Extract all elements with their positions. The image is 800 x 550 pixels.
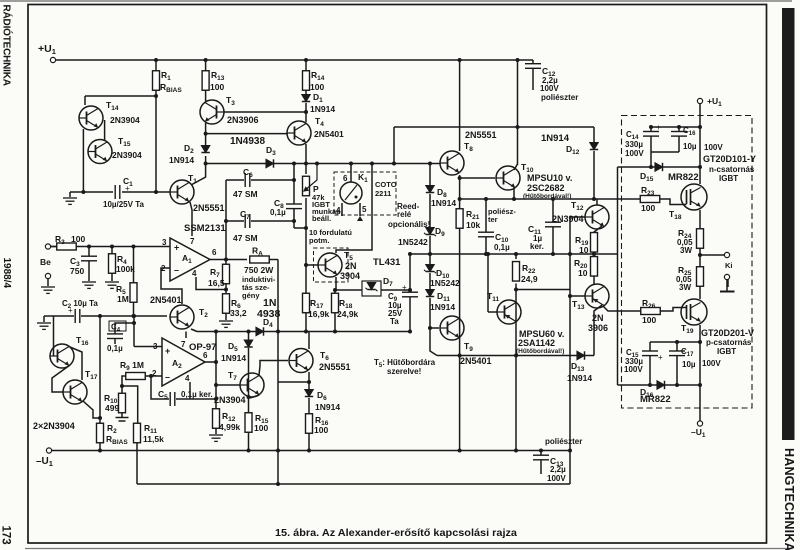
svg-text:–: – [165, 372, 170, 382]
wire R3 input terminal stub [51, 246, 57, 248]
svg-text:+: + [656, 123, 661, 132]
capacitor C5 [170, 392, 175, 406]
svg-text:R1: R1 [161, 70, 171, 82]
wire T11 base vertical [487, 254, 489, 312]
svg-text:K1: K1 [358, 172, 368, 184]
wire R2 bottom stub [99, 443, 101, 451]
svg-text:szerelve!: szerelve! [387, 367, 421, 376]
capacitor C17 [669, 351, 685, 356]
T5 heatsink dashed box [314, 248, 349, 282]
wire K1 pin4 stub [341, 203, 343, 216]
svg-text:3: 3 [153, 342, 158, 351]
capacitor C7 [245, 214, 250, 228]
svg-text:3: 3 [162, 238, 167, 247]
svg-text:10µ: 10µ [683, 142, 697, 151]
capacitor C4 [109, 321, 126, 331]
svg-text:opcionális!: opcionális! [388, 220, 430, 229]
resistor R18 [332, 293, 339, 313]
svg-text:T8: T8 [464, 141, 473, 153]
transistor T17 [63, 380, 87, 404]
svg-text:IGBT: IGBT [719, 174, 738, 183]
svg-text:330µ: 330µ [625, 140, 643, 149]
wire D15 line [618, 166, 701, 168]
svg-text:4: 4 [336, 206, 341, 215]
wire R12 bottom ground stub [215, 428, 217, 434]
svg-text:+: + [402, 283, 407, 292]
wire C9 top stub [409, 290, 411, 292]
wire T8 emitter to T10 base node [459, 175, 461, 209]
wire D9 to D10 [429, 236, 431, 265]
capacitor C3 [81, 256, 97, 261]
resistor R6 [223, 294, 230, 314]
svg-text:3904: 3904 [340, 271, 360, 281]
wire R9 right to A2 pin2 [144, 375, 162, 377]
wire R22 node to T13 base riser [516, 289, 570, 291]
svg-text:T17: T17 [85, 369, 98, 381]
transistor T3 [200, 100, 224, 124]
diode D8 [426, 186, 434, 193]
relay K1 dashed box [334, 172, 396, 215]
svg-text:10: 10 [579, 245, 589, 255]
svg-text:T6: T6 [320, 350, 329, 362]
wire A2 pin7 stub [185, 332, 187, 339]
wire gate rail vertical [617, 167, 619, 385]
svg-text:2SC2682: 2SC2682 [527, 183, 565, 193]
wire C11 bottom stub [552, 227, 554, 254]
svg-text:2N3904: 2N3904 [552, 214, 584, 224]
ground under C1 [63, 198, 77, 204]
transistor T13 [585, 284, 609, 308]
wire D6 to R16 [308, 398, 310, 414]
svg-text:2×2N3904: 2×2N3904 [33, 421, 75, 431]
svg-text:5: 5 [362, 205, 367, 214]
svg-text:2,2µ: 2,2µ [550, 465, 566, 474]
wire D2 to bus [205, 156, 207, 164]
wire input line to A1 pin3 [51, 246, 170, 248]
wire D8 chain top [429, 164, 431, 187]
capacitor C8 [286, 204, 302, 209]
svg-text:24,9: 24,9 [521, 274, 538, 284]
wire C2 ground stub [43, 316, 45, 322]
svg-text:potm.: potm. [309, 236, 329, 245]
svg-text:1N914: 1N914 [431, 198, 456, 208]
wire T14 collector line [85, 95, 156, 97]
resistor R2 [97, 423, 104, 443]
wire D11 down [429, 298, 431, 345]
capacitor C12 [525, 64, 541, 69]
svg-text:T11: T11 [487, 291, 499, 303]
transistor T8 [440, 151, 464, 175]
wire C3 top stub [88, 247, 90, 257]
transistor T1 [170, 180, 194, 204]
svg-text:GT20D201-V: GT20D201-V [701, 328, 754, 338]
svg-text:+: + [165, 346, 170, 356]
svg-text:0,1µ ker.: 0,1µ ker. [181, 390, 213, 399]
diode D10 zener [424, 265, 436, 274]
wire T14 top stub [84, 96, 86, 105]
svg-text:1N914: 1N914 [310, 104, 335, 114]
svg-text:MR822: MR822 [640, 394, 671, 405]
transistor T9 [440, 316, 464, 340]
wire T19 source down [699, 325, 701, 421]
svg-text:100V: 100V [540, 84, 559, 93]
svg-text:T16: T16 [76, 335, 89, 347]
svg-text:1N914: 1N914 [430, 302, 455, 312]
svg-text:T12: T12 [571, 200, 584, 212]
svg-text:1N914: 1N914 [315, 402, 340, 412]
svg-text:1M: 1M [117, 294, 129, 304]
wire T12 collector stub [596, 199, 598, 205]
svg-text:10k: 10k [466, 220, 480, 230]
svg-text:2N5551: 2N5551 [465, 130, 497, 140]
wire T16 base tie [53, 316, 55, 356]
wire C2 line right to T2 base [81, 315, 167, 317]
wire Ki output line [700, 254, 725, 256]
svg-text:1N4938: 1N4938 [230, 136, 265, 147]
wire T16 emitter to T17 base [52, 365, 70, 392]
svg-text:+: + [68, 306, 73, 315]
wire D8 to D9 [429, 194, 431, 228]
wire T5 emitter to R18 node [335, 277, 337, 290]
resistor R3 [57, 243, 77, 250]
svg-text:A1: A1 [182, 253, 192, 265]
svg-text:1N914: 1N914 [221, 353, 246, 363]
wire R15 bottom [248, 431, 250, 451]
wire T16 collector to T17 [70, 347, 82, 380]
diode D5 [244, 340, 252, 347]
svg-text:10: 10 [578, 268, 588, 278]
wire D4 rail [197, 331, 410, 333]
resistor R9 [126, 373, 146, 380]
svg-text:n-csatornás: n-csatornás [709, 165, 755, 174]
resistor RA [250, 256, 270, 263]
op-amp A2 OP-97 [162, 338, 205, 386]
svg-text:24,9k: 24,9k [337, 309, 359, 319]
svg-text:IGBT: IGBT [717, 347, 736, 356]
wire T10 collector diag [514, 164, 518, 170]
svg-text:100V: 100V [702, 359, 721, 368]
wire A2 output to vertical [205, 361, 216, 363]
svg-text:A2: A2 [172, 358, 182, 370]
wire C15 bottom stub [649, 356, 651, 385]
wire C12 top stub [532, 60, 534, 64]
wire C8 node to P bottom [294, 227, 306, 229]
svg-text:Be: Be [40, 257, 51, 267]
svg-text:2N5401: 2N5401 [150, 295, 182, 305]
wire C1 right segment to T1 base [122, 191, 170, 193]
wire T7 collector to T6 base [259, 361, 288, 376]
wire C3 bottom stub [88, 261, 90, 281]
svg-text:2N3904: 2N3904 [112, 150, 142, 160]
wire node to R11 [122, 386, 138, 424]
wire C10 top stub [485, 199, 487, 232]
junction dots top rail [154, 58, 158, 62]
wire D5 chain [248, 332, 250, 342]
wire driver output line y254 [410, 253, 618, 255]
junction dots output stage [698, 125, 702, 129]
svg-text:–: – [174, 265, 179, 275]
wire R6 bottom to ground [225, 313, 227, 320]
wire R18 top stub [334, 290, 336, 294]
wire T3 base line to D1 node [224, 111, 306, 113]
svg-text:47 SM: 47 SM [233, 189, 258, 199]
resistor R11 [134, 423, 141, 443]
svg-text:(Hűtőbordával!): (Hűtőbordával!) [523, 193, 571, 200]
svg-text:100: 100 [310, 82, 324, 92]
wire R7 top stub [225, 260, 227, 265]
diode D2 [201, 146, 209, 153]
svg-text:3906: 3906 [588, 323, 608, 333]
capacitor C14 [643, 132, 659, 137]
wire T7 base line [216, 384, 240, 386]
svg-text:R9 1M: R9 1M [120, 360, 144, 372]
wire output vertical riser [569, 217, 571, 484]
+U1 right terminal [697, 98, 702, 103]
junction dots input area [87, 245, 91, 249]
svg-text:+: + [658, 353, 663, 362]
transistor T14 [79, 106, 103, 130]
svg-text:RBIAS: RBIAS [106, 434, 128, 446]
svg-text:poliészter: poliészter [541, 93, 578, 102]
wire C4 link [115, 323, 134, 334]
wire C14 top stub [650, 127, 652, 132]
wire output/feedback bottom rail [137, 483, 570, 485]
svg-text:MR822: MR822 [668, 172, 699, 183]
wire T1 emitter to A1 pin7 [190, 202, 192, 236]
wire C6/C7 left node vertical [225, 180, 227, 260]
wire R25 bottom to T19 [699, 285, 701, 300]
transistor T6 [289, 349, 313, 373]
potentiometer P [303, 176, 310, 196]
wire T13 base stub [570, 295, 585, 297]
svg-text:16,5: 16,5 [208, 278, 225, 288]
svg-text:1N914: 1N914 [169, 155, 194, 165]
wire R11 bottom through rail to feedback rail [136, 443, 138, 485]
resistor R10 [119, 393, 126, 413]
relay K1 [340, 182, 362, 204]
svg-text:ker.: ker. [530, 242, 544, 251]
node +U1 terminal [50, 57, 55, 62]
svg-text:D13: D13 [571, 361, 585, 373]
wire Ki jack stub [727, 280, 729, 288]
wire C9 bottom stub [409, 297, 411, 332]
transistor T10 [496, 166, 520, 190]
svg-text:15. ábra. Az Alexander-erősítő: 15. ábra. Az Alexander-erősítő kapcsolás… [275, 527, 517, 539]
wire C8 node vertical upper [293, 164, 295, 205]
svg-text:RBIAS: RBIAS [160, 82, 182, 94]
wire T12 base stub [570, 216, 585, 218]
capacitor C6 [245, 173, 250, 187]
wire R1 top stub [155, 60, 157, 71]
wire R16 bottom [308, 433, 310, 451]
wire C15 top stub [649, 342, 651, 351]
wire T19 gate lead [660, 308, 687, 312]
wire A2 pin3 feed vertical [133, 316, 135, 347]
wire T3 emitter down to D2 node [205, 123, 207, 146]
svg-text:+U1: +U1 [707, 96, 722, 108]
svg-text:relé: relé [397, 210, 412, 219]
svg-text:D3: D3 [266, 145, 276, 157]
svg-text:2N5551: 2N5551 [319, 362, 351, 372]
wire R14 bottom to D1 [305, 90, 307, 96]
svg-text:750: 750 [70, 266, 84, 276]
wire T12 emitter to R19 [594, 226, 602, 234]
svg-text:2211: 2211 [375, 189, 391, 198]
IGBT T18 [681, 184, 707, 210]
resistor R25 [697, 267, 704, 287]
svg-text:2: 2 [161, 264, 166, 273]
svg-text:2N3904: 2N3904 [110, 115, 140, 125]
svg-text:4: 4 [185, 374, 190, 383]
wire D12 feed riser from bus [393, 127, 395, 164]
svg-text:2N: 2N [592, 313, 604, 323]
svg-text:D12: D12 [566, 144, 580, 156]
svg-text:Ki: Ki [725, 261, 733, 270]
wire P top stub [305, 164, 307, 175]
resistor R24 [697, 229, 704, 249]
resistor R7 [223, 264, 230, 284]
capacitor C15 [642, 351, 658, 356]
wire C6 left [226, 179, 244, 181]
wire C16 top stub [678, 127, 680, 132]
svg-text:100: 100 [641, 203, 655, 213]
svg-text:100: 100 [210, 82, 224, 92]
svg-text:750 2W: 750 2W [244, 265, 274, 275]
wire C4 bottom stub [114, 339, 116, 345]
svg-text:OP-97: OP-97 [189, 342, 216, 353]
svg-text:0,1µ: 0,1µ [494, 243, 510, 252]
wire cap top link [651, 126, 700, 128]
wire emitter/drive line y355 [437, 355, 594, 357]
svg-text:3W: 3W [679, 283, 691, 292]
wire -U1 bottom rail [52, 450, 570, 452]
wire RA right drop to R17/R18 row [270, 259, 279, 261]
wire R24 bottom [699, 247, 701, 269]
wire A2 pin3 horizontal [134, 346, 162, 348]
svg-text:T9: T9 [464, 341, 473, 353]
svg-text:11,5k: 11,5k [143, 434, 164, 444]
svg-text:T3: T3 [226, 95, 235, 107]
svg-text:D5: D5 [228, 341, 238, 353]
svg-text:T14: T14 [106, 100, 119, 112]
transistor T11 [497, 300, 521, 324]
SECTION: top-left bias network [70, 60, 533, 236]
resistor R13 [202, 71, 209, 91]
input terminal Be [45, 244, 50, 249]
svg-text:T2: T2 [199, 307, 208, 319]
output terminal Ki [724, 252, 729, 257]
wire R5 top stub [133, 247, 135, 284]
svg-text:SSM2131: SSM2131 [184, 223, 226, 234]
wire C13 stub [540, 451, 542, 456]
svg-text:–U1: –U1 [691, 427, 706, 439]
wire D4 rail from T2 emitter [191, 329, 197, 332]
svg-text:10µ/25V Ta: 10µ/25V Ta [103, 200, 144, 209]
wire P bottom [305, 198, 307, 294]
svg-text:10µ: 10µ [682, 360, 696, 369]
svg-text:4,99k: 4,99k [219, 422, 241, 432]
resistor R4 [109, 254, 116, 274]
capacitor C16 [671, 132, 687, 137]
svg-text:T7: T7 [228, 370, 237, 382]
svg-text:100: 100 [314, 425, 328, 435]
svg-text:1N914: 1N914 [567, 373, 592, 383]
wire K1 pin6 stub [350, 164, 352, 183]
resistor R22 [513, 262, 520, 282]
wire R22 top stub [515, 254, 517, 259]
svg-text:0,1µ: 0,1µ [270, 208, 286, 217]
svg-text:D1: D1 [313, 92, 323, 104]
SECTION: IGBT output stage [541, 104, 728, 475]
svg-text:+: + [125, 184, 130, 193]
svg-text:100V: 100V [625, 149, 644, 158]
capacitor C2 [75, 309, 80, 323]
svg-text:4: 4 [192, 269, 197, 278]
wire R4 bottom stub [111, 273, 113, 281]
svg-text:poliészter: poliészter [545, 437, 582, 446]
svg-text:7: 7 [181, 340, 186, 349]
svg-text:173: 173 [0, 526, 12, 545]
wire T13 emitter to R26 [603, 306, 641, 311]
svg-text:2N: 2N [345, 261, 357, 271]
svg-text:beáll.: beáll. [312, 214, 331, 223]
wire bias chain vertical [99, 316, 101, 424]
wire D12 bottom stub [593, 151, 595, 199]
svg-text:T18: T18 [669, 209, 682, 221]
wire R18 node to D7 [335, 289, 362, 291]
wire T17 emitter to R2 node [83, 401, 100, 418]
wire +U1 right terminal down [699, 104, 701, 185]
wire D10 to D11 [429, 273, 431, 290]
wire R17 bottom [305, 312, 307, 332]
diode D12 [590, 143, 598, 150]
wire output node vertical to feedback rail [277, 382, 279, 484]
transistor T12 [585, 205, 609, 229]
wire +U1 top rail [56, 59, 533, 61]
wire C14 bottom stub [650, 136, 652, 152]
svg-text:100: 100 [71, 234, 85, 244]
svg-text:1N5242: 1N5242 [398, 237, 428, 247]
capacitor C1 [115, 185, 120, 199]
wire R9 left to R10 node [122, 376, 127, 393]
svg-text:+U1: +U1 [38, 43, 56, 56]
svg-text:Ta: Ta [390, 317, 399, 326]
svg-text:2N3904: 2N3904 [214, 395, 246, 405]
wire T14-T15 right link [104, 120, 106, 141]
resistor R26 [641, 308, 661, 315]
wire T3 emitter line to T4 base [206, 133, 288, 135]
wire T13 emitter to D13 line [594, 305, 602, 356]
diode D15 [655, 163, 663, 171]
transistor T7 [240, 373, 264, 397]
svg-text:TL431: TL431 [373, 257, 401, 268]
wire chain corner to emitter line [430, 345, 437, 356]
wire C1 ground stub [69, 192, 71, 197]
svg-text:R14: R14 [311, 70, 325, 82]
wire T10 emitter stub [513, 187, 515, 199]
capacitor C13 [533, 455, 549, 460]
svg-text:3W: 3W [680, 246, 692, 255]
wire R14 top stub [305, 60, 307, 71]
wire C1 left segment [70, 191, 113, 193]
wire C13 bottom stub [540, 460, 542, 474]
resistor R5 [130, 283, 137, 303]
resistor R20 [591, 257, 598, 277]
svg-text:16,9k: 16,9k [308, 309, 330, 319]
svg-text:D6: D6 [317, 390, 327, 402]
svg-text:(Hűtőbordával!): (Hűtőbordával!) [516, 348, 564, 355]
svg-text:2N3906: 2N3906 [227, 115, 259, 125]
